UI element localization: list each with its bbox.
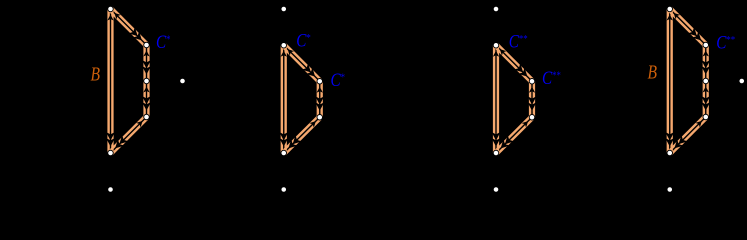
node D3 top-left	[493, 43, 499, 49]
arrowheads of D1 bottom diagonal	[115, 121, 143, 149]
wire D1 left vertical B (double shaft)	[109, 9, 113, 153]
node D1 top	[108, 6, 114, 12]
arrowheads of D2 left vertical	[279, 51, 288, 147]
node D4 right-3	[703, 114, 709, 120]
svg-text:B: B	[91, 63, 101, 85]
arrowheads of D4 right seg 1	[701, 51, 710, 75]
svg-text:C**: C**	[542, 68, 561, 89]
arrowheads of D4 left vertical B	[665, 15, 674, 147]
node D4 top	[667, 6, 673, 12]
arrowheads of D3 left vertical	[492, 51, 501, 147]
wire D4 bottom diagonal (double shaft)	[668, 116, 707, 155]
wire D1 right seg 2 (double shaft)	[145, 81, 149, 117]
wire D3 bottom diagonal (double shaft)	[495, 116, 534, 154]
node D4 isolated right	[739, 78, 745, 84]
node D3 isolated top	[493, 6, 499, 12]
arrowheads of D2 bottom diagonal	[288, 121, 315, 148]
wire D4 right seg 1 (double shaft)	[704, 45, 708, 81]
wire D2 left vertical (double shaft)	[282, 45, 286, 153]
wire D1 right seg 1 (double shaft)	[145, 45, 149, 81]
node D4 isolated bottom	[667, 187, 673, 193]
wire D2 right seg (double shaft)	[318, 81, 322, 117]
node D1 right-2	[144, 78, 150, 84]
arrowheads of D1 right seg 2	[142, 87, 151, 111]
node D2 right-1	[317, 79, 323, 85]
node D1 bottom-left	[108, 150, 114, 156]
arrowheads of D1 left vertical B	[106, 15, 115, 147]
svg-text:B: B	[648, 61, 658, 83]
wire D4 top diagonal (double shaft)	[668, 8, 707, 47]
wire D1 top diagonal (double shaft)	[109, 8, 148, 47]
wire D4 right seg 2 (double shaft)	[704, 81, 708, 117]
arrowheads of D4 right seg 2	[701, 87, 710, 111]
node D2 bottom-left	[281, 150, 287, 156]
wire D2 top diagonal (double shaft)	[282, 44, 321, 83]
arrowheads of D3 right seg	[528, 87, 537, 111]
svg-text:C**: C**	[509, 31, 528, 52]
node D2 isolated top	[281, 6, 287, 12]
arrowheads of D1 top diagonal	[114, 13, 142, 41]
arrowheads of D2 top diagonal	[288, 49, 316, 77]
node D1 right-1	[144, 42, 150, 48]
wire D4 left vertical B (double shaft)	[668, 9, 672, 153]
node D3 isolated bottom	[493, 187, 499, 193]
node D2 right-2	[317, 115, 323, 121]
node D4 bottom-left	[667, 150, 673, 156]
svg-text:C**: C**	[716, 32, 735, 53]
node D3 right-1	[529, 79, 535, 85]
node D2 top-left	[281, 43, 287, 49]
node D1 right-3	[144, 114, 150, 120]
node D4 right-2	[703, 78, 709, 84]
node D3 bottom-left	[493, 150, 499, 156]
svg-text:C*: C*	[156, 31, 171, 52]
arrowheads of D2 right seg	[315, 87, 324, 111]
arrowheads of D3 bottom diagonal	[501, 121, 528, 148]
node D1 isolated bottom	[108, 187, 114, 193]
svg-text:C*: C*	[296, 30, 311, 51]
wire D3 left vertical (double shaft)	[494, 45, 498, 153]
svg-text:C*: C*	[331, 70, 346, 91]
wire D3 top diagonal (double shaft)	[495, 44, 534, 83]
arrowheads of D3 top diagonal	[500, 49, 528, 77]
arrowheads of D1 right seg 1	[142, 51, 151, 75]
node D2 isolated bottom	[281, 187, 287, 193]
wire D2 bottom diagonal (double shaft)	[282, 116, 321, 154]
node D1 isolated right	[180, 78, 186, 84]
arrowheads of D4 top diagonal	[674, 13, 702, 41]
wire D1 bottom diagonal (double shaft)	[109, 116, 148, 155]
node D4 right-1	[703, 42, 709, 48]
node D3 right-2	[529, 115, 535, 121]
arrowheads of D4 bottom diagonal	[674, 121, 702, 149]
wire D3 right seg (double shaft)	[530, 81, 534, 117]
